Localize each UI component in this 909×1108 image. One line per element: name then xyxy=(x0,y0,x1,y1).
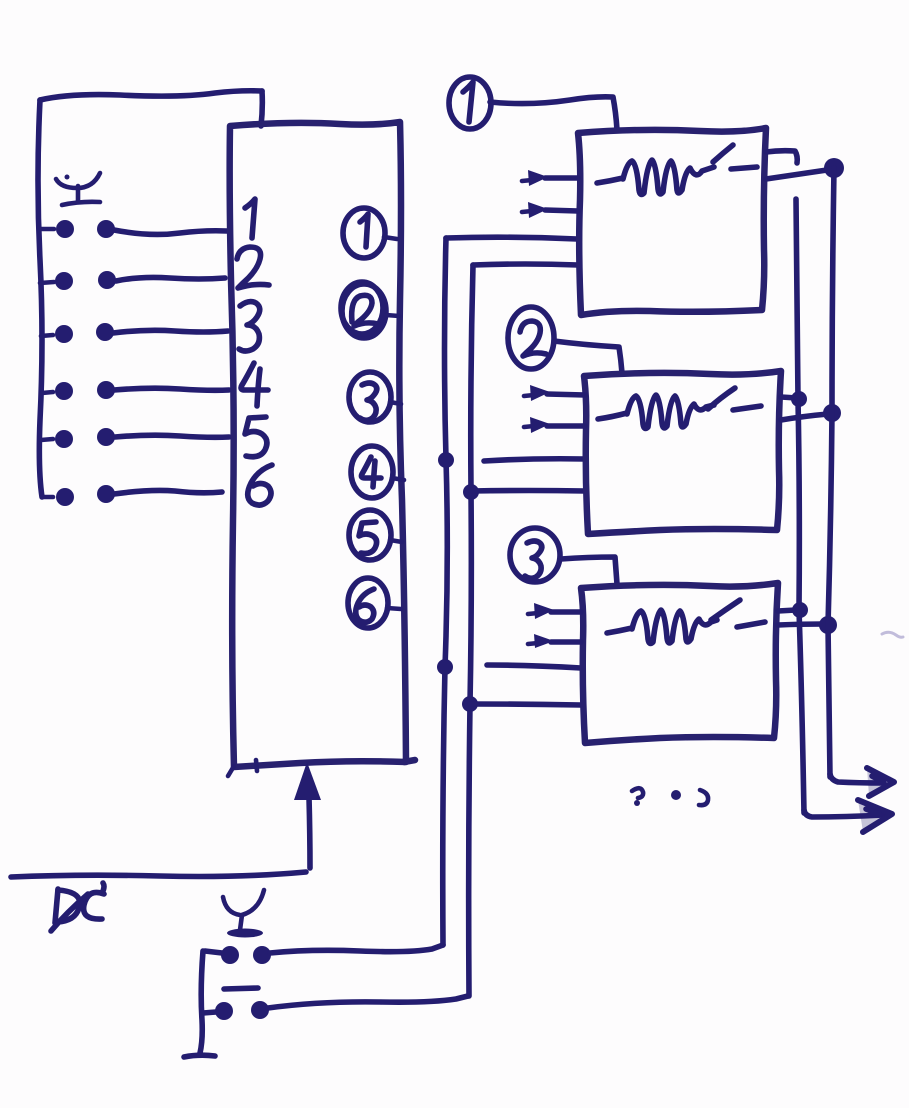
output circle 1 xyxy=(343,208,397,258)
output circle 5 xyxy=(349,510,402,560)
junction dot riser B / box2 branch xyxy=(463,484,479,500)
box3 input arrow 2 xyxy=(528,634,581,648)
riser B vertical wire xyxy=(469,265,473,996)
switch row 2: contacts and wire to decoder pin 2 xyxy=(40,271,225,290)
wire: riser B branch to box3 xyxy=(470,704,581,705)
node circle 3 xyxy=(510,528,560,582)
wire: push-button common down to ground xyxy=(200,951,203,1053)
push-button pole 1 contacts xyxy=(205,946,271,964)
junction dot far bus top xyxy=(824,158,844,178)
box2 input arrow 1 xyxy=(524,385,585,401)
wire: riser A top to box1 left xyxy=(446,237,577,239)
faint stray mark xyxy=(882,632,903,637)
box2 output stub to far bus xyxy=(781,414,828,420)
wire: node 2 to box2 top xyxy=(554,341,622,373)
wire: node 1 to box1 top xyxy=(490,97,617,130)
switch row 6: contacts and wire to decoder pin 6 xyxy=(42,485,222,506)
ellipsis mark 3 xyxy=(699,790,708,805)
junction dot riser B / box3 branch xyxy=(462,696,478,712)
ground symbol xyxy=(184,1055,215,1057)
box1 input arrow 1 xyxy=(522,170,578,186)
near bus vertical wire xyxy=(796,199,804,813)
receiver box 2 xyxy=(584,371,781,534)
switch row 3: contacts and wire to decoder pin 3 xyxy=(41,323,228,343)
wire: vertical contact bus xyxy=(38,100,42,497)
receiver box 1 xyxy=(578,128,766,315)
box3 potentiometer xyxy=(607,600,765,643)
junction dot near bus / box3 xyxy=(792,602,808,618)
pin label 3 xyxy=(239,302,260,351)
switch row 4: contacts and wire to decoder pin 4 xyxy=(42,381,229,400)
box3 output stub to near bus xyxy=(778,610,796,611)
antenna symbol (left bank) xyxy=(56,173,100,205)
label DC xyxy=(51,883,104,931)
wire: riser B top to box1 left xyxy=(473,264,578,265)
switch row 1: contacts and wire to decoder pin 1 xyxy=(41,220,227,238)
near bus bottom corner and output arrow xyxy=(804,800,892,832)
output circle 2 xyxy=(341,282,399,338)
node circle 1 xyxy=(449,77,491,129)
ellipsis mark 2 xyxy=(671,790,681,800)
box2 input arrow 2 xyxy=(524,417,585,433)
wire: pole 2 to riser B xyxy=(268,996,468,1008)
pin label 2 xyxy=(237,247,269,288)
wire: top bus from contact bank to decoder xyxy=(40,91,262,100)
box1 output stub to far bus xyxy=(766,170,827,179)
box2 potentiometer xyxy=(598,388,761,428)
switch row 5: contacts and wire to decoder pin 5 xyxy=(41,428,229,448)
output circle 4 xyxy=(351,446,404,498)
pin label 1 xyxy=(245,199,255,238)
box3 input arrow 1 xyxy=(528,603,581,619)
node circle 2 xyxy=(508,307,554,369)
junction dot riser A / box3 branch xyxy=(437,659,453,675)
antenna symbol (push-button) xyxy=(223,890,264,938)
far bus vertical wire xyxy=(828,168,834,777)
pin label 5 xyxy=(245,417,267,457)
output circle 6 xyxy=(348,578,401,628)
receiver box 3 xyxy=(581,583,778,743)
DC supply arrow into decoder xyxy=(294,762,321,868)
wire: riser B branch to box2 xyxy=(471,488,585,494)
pin label 6 xyxy=(248,465,272,505)
wire: riser A branch to box2 xyxy=(484,459,585,461)
junction dot near bus / box2 xyxy=(791,391,807,407)
wire: node 3 to box3 top xyxy=(561,557,617,584)
box1 output stub to near bus xyxy=(766,151,797,163)
wire: pole 1 to riser A xyxy=(270,945,443,953)
junction dot far bus / box2 xyxy=(823,404,841,422)
push-button actuator dash xyxy=(224,988,258,989)
riser A vertical wire xyxy=(443,238,448,945)
output circle 3 xyxy=(349,372,401,422)
box1 input arrow 2 xyxy=(522,202,578,218)
ellipsis mark 1 xyxy=(632,788,643,806)
wire: riser A branch to box3 xyxy=(487,665,581,668)
box2 output stub to near bus xyxy=(781,397,797,398)
junction dot far bus / box3 xyxy=(819,616,837,634)
box1 potentiometer xyxy=(597,145,757,194)
wire: bus drop into decoder top xyxy=(261,91,262,126)
box3 output stub to far bus xyxy=(778,624,824,625)
junction dot riser A / box2 branch xyxy=(438,452,454,468)
decoder module U1 box xyxy=(228,122,415,776)
push-button pole 2 contacts xyxy=(203,1001,269,1020)
DC wire xyxy=(11,872,306,877)
pin label 4 xyxy=(241,363,268,406)
far bus bottom corner and output arrow xyxy=(830,768,894,796)
